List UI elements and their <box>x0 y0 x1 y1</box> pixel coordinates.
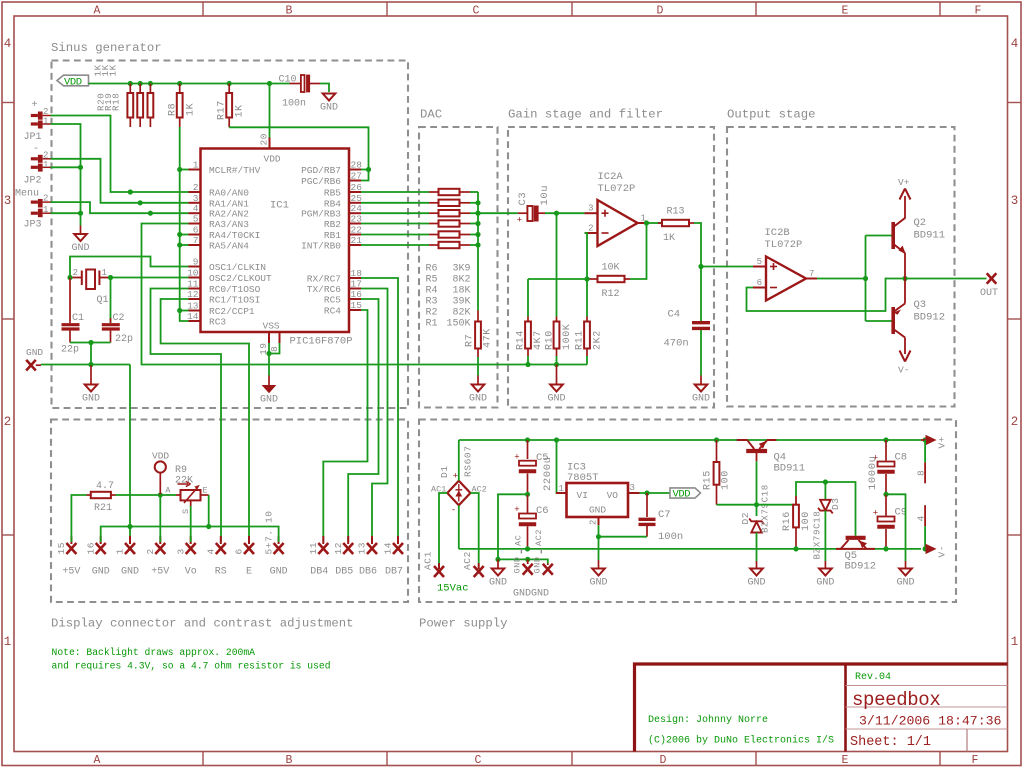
wire RC7 to DB7 <box>361 278 398 542</box>
svg-text:6: 6 <box>193 225 199 236</box>
svg-text:GND: GND <box>26 347 43 358</box>
wire pot E to GND bus <box>208 495 210 527</box>
svg-text:BZX79C18: BZX79C18 <box>812 511 823 560</box>
svg-text:+: + <box>514 453 519 463</box>
junction DAC to C3 <box>475 211 480 216</box>
svg-text:100: 100 <box>801 511 812 531</box>
svg-text:V+: V+ <box>898 177 910 188</box>
svg-text:RB2: RB2 <box>324 219 341 230</box>
svg-text:25: 25 <box>351 193 363 204</box>
connector pin 5+7..10 GND <box>278 536 280 544</box>
svg-text:E: E <box>842 5 849 18</box>
svg-text:GND: GND <box>589 505 606 516</box>
svg-text:B: B <box>286 5 293 18</box>
svg-text:8K2: 8K2 <box>452 274 470 285</box>
svg-text:1: 1 <box>193 160 199 171</box>
junction emitters <box>902 276 907 281</box>
junction R8 RC2 <box>177 308 182 313</box>
svg-text:14: 14 <box>383 542 394 555</box>
section box Gain stage and filter <box>508 127 714 408</box>
svg-text:Q3: Q3 <box>914 299 927 311</box>
svg-text:3: 3 <box>193 193 199 204</box>
junction rail R8 <box>177 81 182 86</box>
svg-text:4K7: 4K7 <box>533 330 544 350</box>
junction R8 MCLR <box>177 167 182 172</box>
svg-text:BD912: BD912 <box>845 560 877 572</box>
svg-text:2: 2 <box>1011 415 1019 429</box>
svg-text:20: 20 <box>259 133 270 146</box>
svg-text:RB1: RB1 <box>324 230 341 241</box>
svg-text:2: 2 <box>4 415 12 429</box>
svg-text:R13: R13 <box>667 207 685 218</box>
pin 17 TX/RC6 <box>349 288 361 290</box>
svg-text:21: 21 <box>351 235 363 246</box>
svg-text:3K9: 3K9 <box>452 263 470 274</box>
wire IC3 gnd <box>598 525 600 560</box>
junction R8 RA4 <box>177 232 182 237</box>
svg-text:1: 1 <box>115 548 126 554</box>
svg-text:27: 27 <box>351 171 362 182</box>
pin 2 stub IC2A <box>585 232 598 234</box>
junction rail C10/VDD pin <box>267 81 272 86</box>
svg-text:BD911: BD911 <box>914 230 946 242</box>
svg-text:VDD: VDD <box>152 451 169 462</box>
svg-text:TL072P: TL072P <box>765 239 803 251</box>
svg-text:MCLR#/THV: MCLR#/THV <box>209 165 261 176</box>
svg-text:10K: 10K <box>602 263 620 274</box>
svg-text:D3: D3 <box>830 497 841 510</box>
svg-text:+: + <box>514 505 519 515</box>
supply arrow V- Q3 <box>904 346 906 354</box>
supply flag VDD power <box>670 488 701 498</box>
svg-text:150K: 150K <box>446 318 470 329</box>
minus input mark IC2A <box>602 232 609 234</box>
resistor R6 DAC <box>361 191 429 193</box>
resistor R19 <box>139 84 141 94</box>
section box Sinus generator <box>52 61 409 409</box>
resistor R2 DAC <box>361 234 429 236</box>
svg-text:GND: GND <box>82 394 100 405</box>
svg-text:BD911: BD911 <box>774 463 806 475</box>
svg-text:GND: GND <box>270 567 288 578</box>
pin 5 stub IC2B <box>753 266 766 268</box>
pin 6 RA4/T0CKI <box>189 234 201 236</box>
svg-text:S: S <box>181 508 191 514</box>
pin 12 RC1/T1OSI <box>189 298 201 300</box>
transistor Q4 BD911 <box>737 439 748 441</box>
wire pin28 stub link <box>361 169 369 171</box>
connector pin 2 +5V <box>159 536 161 544</box>
resistor R21 <box>87 494 91 496</box>
svg-text:14: 14 <box>187 311 199 322</box>
zener D3 BZX79C18 <box>824 482 826 500</box>
svg-text:B: B <box>286 754 293 767</box>
svg-text:3/11/2006 18:47:36: 3/11/2006 18:47:36 <box>859 714 1002 729</box>
svg-text:BZX79C18: BZX79C18 <box>760 484 771 533</box>
wire R15 to Q4 base node <box>717 504 757 506</box>
connector pin 15 +5V <box>70 536 72 544</box>
svg-text:1: 1 <box>43 205 48 215</box>
pin 2 RA0/AN0 <box>189 191 201 193</box>
wire VDD rail to IC1 pin20 <box>269 84 271 138</box>
crystal Q1 <box>70 277 82 279</box>
ground R10 node <box>556 365 558 385</box>
wire V- rail <box>459 548 921 550</box>
pin 1 stub IC3 <box>556 492 567 494</box>
junction JP2.1 <box>78 165 83 170</box>
wire RC2 to RC3 <box>180 311 189 322</box>
junction C5 C6 <box>525 492 530 497</box>
svg-text:GND: GND <box>489 578 507 589</box>
svg-text:3: 3 <box>588 204 593 214</box>
svg-text:C10: C10 <box>279 75 297 86</box>
svg-text:2: 2 <box>73 268 78 278</box>
connector JP1 <box>38 112 43 120</box>
junction IC2A output <box>644 220 649 225</box>
resistor R10 <box>556 317 558 322</box>
svg-text:Q2: Q2 <box>914 217 927 229</box>
svg-text:RC4: RC4 <box>324 306 341 317</box>
title block sheet cell divider <box>966 729 968 752</box>
svg-text:IC1: IC1 <box>270 200 289 212</box>
wire crystal to OSC2 <box>111 277 189 279</box>
svg-text:16: 16 <box>85 542 96 555</box>
svg-text:22p: 22p <box>61 345 79 356</box>
svg-text:RS: RS <box>215 567 227 578</box>
svg-text:C: C <box>473 5 480 18</box>
svg-text:+: + <box>517 216 522 226</box>
wire feedback IC2B <box>747 279 906 312</box>
svg-text:2200u: 2200u <box>542 456 554 491</box>
op-amp IC2A <box>598 200 638 246</box>
regulator IC3 7805T <box>567 483 629 517</box>
resistor R13 <box>658 222 662 224</box>
svg-text:1: 1 <box>43 160 48 170</box>
resistor R12 <box>587 278 598 280</box>
svg-text:2: 2 <box>43 150 48 160</box>
junction DAC node <box>475 221 480 226</box>
resistor R16 <box>793 505 799 528</box>
svg-text:R21: R21 <box>94 503 112 514</box>
svg-text:R12: R12 <box>602 289 620 300</box>
wire VSS pins to ground <box>269 343 280 354</box>
wire bridge to AC1 pin <box>439 493 447 563</box>
junction GND bus pot <box>206 524 211 529</box>
junction DAC node <box>475 211 480 216</box>
capacitor C10 <box>290 83 302 85</box>
svg-text:4: 4 <box>4 37 12 51</box>
svg-text:+: + <box>32 100 38 111</box>
pot wiper arrow R9 <box>184 488 198 504</box>
svg-text:Output stage: Output stage <box>727 108 816 122</box>
rectifier D1 RS607 <box>447 481 470 506</box>
transistor Q5 BD912 <box>836 548 875 550</box>
svg-text:VDD: VDD <box>264 154 281 165</box>
svg-text:26: 26 <box>351 182 363 193</box>
svg-text:C1: C1 <box>72 313 84 324</box>
svg-text:Design: Johnny Norre: Design: Johnny Norre <box>648 714 768 726</box>
junction C4 node <box>698 264 703 269</box>
pot adjust arrow R9 <box>178 481 191 486</box>
svg-text:GNDGND: GNDGND <box>513 589 549 600</box>
svg-text:3: 3 <box>175 548 186 554</box>
svg-text:E: E <box>203 486 208 496</box>
wire bridge to AC2 pin <box>470 493 478 563</box>
opamp power pin 4 <box>924 505 926 526</box>
junction R8 RA5 <box>177 242 182 247</box>
svg-text:6: 6 <box>234 548 245 554</box>
ground C10 <box>323 94 336 101</box>
pin 27 PGC/RB6 <box>349 180 361 182</box>
svg-text:7: 7 <box>193 235 199 246</box>
pin AC1 X <box>434 566 444 577</box>
pin 25 RB4 <box>349 202 361 204</box>
pin 26 RB5 <box>349 191 361 193</box>
svg-text:47K: 47K <box>483 328 494 348</box>
svg-text:C4: C4 <box>668 309 681 321</box>
svg-text:+5V: +5V <box>151 567 169 578</box>
svg-text:D2: D2 <box>740 512 751 525</box>
svg-text:Display connector and contrast: Display connector and contrast adjustmen… <box>51 617 354 631</box>
svg-text:PIC16F870P: PIC16F870P <box>290 336 353 348</box>
wire DAC to C3 <box>478 212 518 214</box>
svg-text:R2: R2 <box>426 307 438 318</box>
resistor R20 <box>129 84 131 94</box>
pin 7 RA5/AN4 <box>189 244 201 246</box>
capacitor C5 <box>527 440 529 459</box>
capacitor C8 <box>885 440 887 461</box>
svg-text:1: 1 <box>4 635 12 649</box>
junction IC3 gnd C7 <box>596 534 601 539</box>
ground JP pins <box>80 226 82 235</box>
svg-text:100K: 100K <box>562 324 573 350</box>
junction rail R17 <box>227 81 232 86</box>
svg-text:18K: 18K <box>452 285 470 296</box>
svg-text:22: 22 <box>351 225 363 236</box>
wire RC6 to DB6 <box>361 289 388 543</box>
svg-text:R14: R14 <box>516 330 527 350</box>
svg-text:13: 13 <box>357 542 368 555</box>
wire C3 to opamp <box>545 212 585 214</box>
svg-text:Q1: Q1 <box>97 295 109 306</box>
wire VDD node to pot A <box>160 494 176 496</box>
pin 8 VSS stub <box>279 332 281 343</box>
svg-text:1: 1 <box>1011 635 1019 649</box>
svg-text:Sinus generator: Sinus generator <box>51 41 162 55</box>
svg-text:GND: GND <box>816 578 834 589</box>
svg-text:RB5: RB5 <box>324 188 341 199</box>
svg-text:12: 12 <box>187 289 199 300</box>
svg-text:V-: V- <box>898 365 909 376</box>
junction rail R19 <box>138 81 143 86</box>
capacitor C1 <box>69 278 71 324</box>
junction Q4 base node <box>754 502 759 507</box>
svg-text:and requires 4.3V, so a 4.7 oh: and requires 4.3V, so a 4.7 ohm resistor… <box>52 661 331 672</box>
wire C10 to GND <box>320 84 329 93</box>
svg-text:11: 11 <box>308 542 319 555</box>
svg-text:GND: GND <box>589 578 607 589</box>
svg-text:82K: 82K <box>452 307 470 318</box>
svg-text:D: D <box>660 754 667 767</box>
svg-text:10u: 10u <box>539 185 551 206</box>
svg-text:6: 6 <box>757 278 762 288</box>
minus input mark IC2B <box>770 287 777 289</box>
svg-text:Gain stage and filter: Gain stage and filter <box>508 108 663 122</box>
svg-text:C8: C8 <box>895 452 908 464</box>
svg-text:GND: GND <box>71 243 89 254</box>
svg-text:RC0/T1OSO: RC0/T1OSO <box>209 284 261 295</box>
wire crystal to OSC1 <box>70 257 189 278</box>
svg-text:2: 2 <box>43 194 48 204</box>
svg-text:5: 5 <box>193 214 199 225</box>
svg-text:28: 28 <box>351 160 363 171</box>
svg-text:A: A <box>94 5 101 18</box>
connector pin 12 DB5 <box>347 536 349 544</box>
svg-text:C6: C6 <box>536 505 549 517</box>
wire base Q2 <box>866 235 892 237</box>
ground D2 <box>756 561 758 569</box>
junction VO C7 <box>644 490 649 495</box>
svg-text:R1: R1 <box>426 318 438 329</box>
junction C6 V- rail <box>525 546 530 551</box>
svg-text:3: 3 <box>4 194 12 208</box>
pin 16 RC5 <box>349 298 361 300</box>
capacitor C3 <box>518 212 528 214</box>
svg-text:JP3: JP3 <box>24 220 42 231</box>
svg-text:D: D <box>657 5 664 18</box>
svg-text:INT/RB0: INT/RB0 <box>301 241 341 252</box>
svg-text:5: 5 <box>757 257 762 267</box>
wire RA3 net <box>142 224 588 365</box>
wire R13 to C4 node <box>694 223 701 267</box>
junction R12 R11 <box>584 276 589 281</box>
svg-text:OSC2/CLKOUT: OSC2/CLKOUT <box>209 273 272 284</box>
junction C1C2 <box>88 340 93 345</box>
wire base node to R16 D3 Q5 <box>757 504 797 506</box>
ground C1C2 <box>90 365 92 385</box>
svg-text:R6: R6 <box>426 263 438 274</box>
svg-text:2: 2 <box>43 107 48 117</box>
resistor R7 <box>477 311 479 322</box>
frame row ticks left <box>2 102 14 104</box>
pin 13 RC2/CCP1 <box>189 310 201 312</box>
svg-text:2: 2 <box>193 182 199 193</box>
svg-text:8: 8 <box>916 470 927 476</box>
svg-text:GND: GND <box>513 556 523 573</box>
zener D2 BZX79C18 <box>756 505 758 516</box>
svg-text:GND: GND <box>747 578 765 589</box>
junction rail C8 <box>883 437 888 442</box>
pin 15 RC4 <box>349 309 361 311</box>
svg-text:3: 3 <box>630 483 635 493</box>
svg-text:1: 1 <box>559 484 564 494</box>
wire C7 to gnd <box>599 536 648 538</box>
svg-text:4: 4 <box>206 548 217 554</box>
svg-text:R17: R17 <box>217 100 228 120</box>
pin 9 OSC1/CLKIN <box>189 266 201 268</box>
supply flag VDD <box>57 75 89 86</box>
svg-text:RA5/AN4: RA5/AN4 <box>209 241 249 252</box>
svg-text:12: 12 <box>333 542 344 555</box>
svg-text:(C)2006 by DuNo Electronics I/: (C)2006 by DuNo Electronics I/S <box>648 735 834 747</box>
svg-text:BD912: BD912 <box>914 312 946 324</box>
svg-text:RC5: RC5 <box>324 295 341 306</box>
svg-text:D1: D1 <box>439 465 450 478</box>
pin 7 stub IC2B <box>806 278 817 280</box>
svg-text:JP1: JP1 <box>24 132 42 143</box>
resistor R1 DAC <box>361 244 429 246</box>
connector pin 4 RS <box>220 536 222 544</box>
wire R10 top <box>556 213 558 316</box>
svg-text:F: F <box>972 754 979 767</box>
svg-text:R15: R15 <box>703 470 714 490</box>
svg-text:AC: AC <box>514 535 524 546</box>
svg-text:100n: 100n <box>282 99 306 110</box>
section box Display connector <box>51 420 408 603</box>
pin 2 stub IC3 <box>598 517 600 525</box>
junction V- rail arrow <box>923 546 928 551</box>
svg-text:23: 23 <box>351 214 363 225</box>
wire Q4 base <box>756 453 758 461</box>
wire R12 to R14/R11 <box>528 278 587 280</box>
svg-text:AC2: AC2 <box>462 551 473 570</box>
junction RA3 R14 <box>525 362 530 367</box>
frame row ticks right <box>1008 102 1022 104</box>
pin AC2 X <box>474 566 484 577</box>
wire IC2B out to bases <box>817 278 866 280</box>
svg-text:GND: GND <box>121 567 139 578</box>
svg-text:C2: C2 <box>113 313 125 324</box>
svg-text:7805T: 7805T <box>567 472 599 484</box>
frame column ticks bottom <box>202 752 204 766</box>
wire C8C9 mid to gnd <box>886 494 906 561</box>
wire bridge plus to V+ rail <box>458 440 460 481</box>
junction rail R20 <box>128 81 133 86</box>
junction rail R15 <box>714 437 719 442</box>
svg-text:V-: V- <box>937 545 948 558</box>
connector pin 13 DB6 <box>371 536 373 544</box>
wire RC5 to DB5 <box>348 299 378 542</box>
svg-text:22K: 22K <box>175 476 193 487</box>
resistor R3 DAC <box>361 223 429 225</box>
ground IC3 <box>598 560 600 569</box>
junction C1C2 gnd line <box>88 362 93 367</box>
svg-text:RS607: RS607 <box>463 445 474 477</box>
svg-text:DB6: DB6 <box>359 567 377 578</box>
pin 5 RA3/AN3 <box>189 223 201 225</box>
svg-text:1K: 1K <box>185 103 196 116</box>
svg-text:15: 15 <box>351 300 363 311</box>
ground C5C6 <box>497 559 499 568</box>
svg-text:PGD/RB7: PGD/RB7 <box>301 165 341 176</box>
resistor R17 <box>228 84 230 94</box>
svg-text:JP2: JP2 <box>24 176 42 187</box>
svg-text:9: 9 <box>193 257 199 268</box>
ground C4 <box>700 376 702 385</box>
svg-text:16: 16 <box>351 289 363 300</box>
wire D2 to gnd <box>756 533 758 562</box>
pin 20 stub <box>269 138 271 149</box>
svg-text:11: 11 <box>187 279 199 290</box>
wire JP3.2 to RA2 <box>51 202 189 213</box>
wire RC0 to RS <box>151 289 222 543</box>
svg-text:Power supply: Power supply <box>419 617 508 631</box>
wire bridge minus to V- rail <box>458 505 460 549</box>
pin 1 stub IC2A <box>638 222 650 224</box>
svg-text:IC2B: IC2B <box>765 227 790 239</box>
wire to gnd X2 <box>528 559 548 563</box>
svg-text:13: 13 <box>187 301 199 312</box>
